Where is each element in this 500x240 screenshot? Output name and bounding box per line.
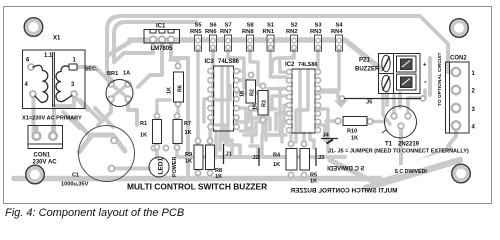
svg-text:S1: S1 [267,23,275,29]
svg-text:1K: 1K [140,133,147,139]
svg-text:1000u,35V: 1000u,35V [61,182,89,188]
svg-text:TO OPTIONAL CIRCUIT: TO OPTIONAL CIRCUIT [437,53,443,106]
svg-text:J5: J5 [366,100,372,106]
svg-text:1A: 1A [123,71,130,77]
svg-text:1.1: 1.1 [44,53,53,59]
svg-text:1K: 1K [185,130,192,136]
svg-text:CON2: CON2 [450,56,467,62]
svg-text:Fig. 4: Component layout of th: Fig. 4: Component layout of the PCB [5,207,184,219]
svg-text:IC3: IC3 [205,59,215,65]
svg-text:1K: 1K [310,179,317,185]
svg-text:S7: S7 [225,23,232,29]
svg-text:S3: S3 [315,23,323,29]
svg-text:X1: X1 [53,36,61,42]
svg-text:R7: R7 [184,121,191,127]
svg-text:J1: J1 [226,152,232,158]
svg-text:C1: C1 [72,173,79,179]
svg-text:S C DWIVEDI: S C DWIVEDI [395,169,428,175]
svg-text:RN8: RN8 [242,29,254,35]
svg-text:R6: R6 [178,85,184,92]
svg-text:S C DWIVEDI: S C DWIVEDI [327,167,365,173]
svg-text:R4: R4 [273,153,281,159]
svg-text:BUZZER: BUZZER [355,67,380,73]
svg-text:RN3: RN3 [310,29,322,35]
svg-text:R1: R1 [140,121,147,127]
svg-text:MULTI CONTROL SWITCH BUZZER: MULTI CONTROL SWITCH BUZZER [127,182,267,192]
svg-text:CON1: CON1 [34,153,51,159]
svg-text:RN2: RN2 [286,29,298,35]
svg-text:S4: S4 [336,23,344,29]
svg-text:J3: J3 [318,155,324,161]
svg-text:LED1: LED1 [157,157,164,174]
svg-text:R10: R10 [347,129,357,135]
svg-text:1K: 1K [273,162,280,168]
svg-text:S6: S6 [210,23,218,29]
svg-text:LM7805: LM7805 [151,46,174,52]
svg-text:S2: S2 [291,23,298,29]
svg-text:1K: 1K [167,87,173,94]
svg-text:S5: S5 [195,23,203,29]
svg-text:230V AC: 230V AC [33,160,58,166]
svg-text:J2: J2 [253,155,259,161]
svg-text:74LS86: 74LS86 [298,62,318,68]
svg-text:R9: R9 [185,152,192,158]
svg-text:74LS86: 74LS86 [218,59,240,65]
svg-text:RN4: RN4 [331,29,343,35]
svg-text:R2: R2 [250,89,256,96]
svg-text:-: - [424,77,427,86]
svg-text:R3: R3 [262,100,268,107]
svg-text:RN1: RN1 [263,29,275,35]
svg-text:J1- J5 = JUMPER (NEED TO CONNE: J1- J5 = JUMPER (NEED TO CONNECT EXTERNA… [328,149,469,155]
svg-text:RN7: RN7 [220,29,232,35]
svg-text:J4: J4 [323,133,330,139]
svg-text:1K: 1K [351,136,358,142]
svg-text:1K: 1K [215,174,222,180]
svg-text:IC1: IC1 [156,24,166,30]
svg-text:+: + [423,63,427,69]
svg-text:S8: S8 [247,23,255,29]
svg-text:1K: 1K [240,90,246,97]
svg-text:RN5: RN5 [190,29,202,35]
svg-text:RN6: RN6 [205,29,217,35]
svg-text:BR1: BR1 [107,71,118,77]
svg-text:MULTI SWITCH CONTROL BUZZER: MULTI SWITCH CONTROL BUZZER [290,188,397,195]
svg-text:1K: 1K [185,159,192,165]
svg-text:PZ1: PZ1 [359,58,371,64]
svg-text:2N2219: 2N2219 [398,142,420,148]
svg-text:1K: 1K [253,103,259,110]
svg-text:SEC.: SEC. [85,67,99,73]
svg-text:X1=230V AC PRIMARY: X1=230V AC PRIMARY [22,116,82,122]
svg-text:T1: T1 [385,142,393,148]
svg-text:IC2: IC2 [285,62,295,68]
svg-text:POWER: POWER [172,157,178,177]
